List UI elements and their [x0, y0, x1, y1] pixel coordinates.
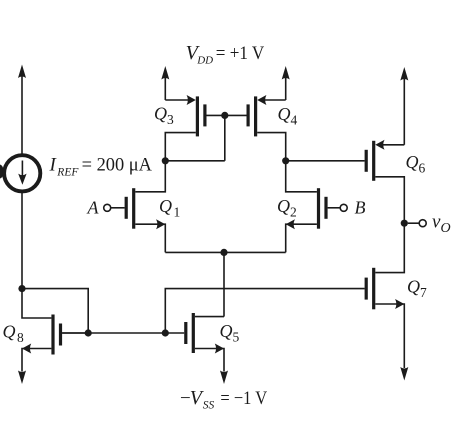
terminal arrow down (Q8 source to -VSS)	[18, 371, 26, 385]
current source IREF	[4, 155, 40, 191]
output terminal vO	[408, 222, 419, 224]
input terminal B	[340, 204, 347, 211]
transistor Q5	[184, 313, 224, 372]
VDD arm Q4	[285, 77, 287, 101]
node J2	[85, 329, 92, 336]
terminal arrow up (Q4 to VDD)	[282, 66, 290, 80]
wire J1 down to Q8 drain	[22, 289, 51, 318]
terminal arrow up left	[18, 65, 26, 79]
node right mirror drain	[282, 157, 289, 164]
gate bus wire Q8-Q5	[62, 332, 184, 334]
transistor Q3	[165, 95, 225, 161]
svg-text:B: B	[355, 198, 366, 218]
terminal arrow down (Q7 source to -VSS)	[400, 367, 408, 381]
tail wire Q1/Q2 sources	[165, 251, 285, 253]
svg-text:Q5: Q5	[220, 321, 240, 345]
svg-text:vO: vO	[432, 212, 451, 237]
svg-text:Q7: Q7	[407, 277, 427, 301]
node J3	[162, 329, 169, 336]
node J1	[18, 285, 25, 292]
node vO	[401, 220, 408, 227]
wire to Q6 gate	[286, 160, 365, 162]
transistor Q6	[365, 140, 405, 223]
bias wire to Q7 gate	[165, 289, 364, 333]
transistor Q8	[22, 315, 88, 372]
svg-text:Q3: Q3	[154, 104, 174, 128]
transistor Q2	[286, 161, 341, 253]
svg-text:= +1 V: = +1 V	[216, 43, 265, 64]
svg-text:= 200 μA: = 200 μA	[82, 155, 153, 176]
terminal arrow up (Q3 to VDD)	[161, 66, 169, 80]
wire IREF down to node J1	[21, 191, 23, 288]
terminal arrow up (Q6 to VDD)	[400, 67, 408, 81]
svg-text:DD: DD	[196, 54, 213, 66]
VDD arm Q3	[164, 77, 166, 101]
transistor Q1	[111, 161, 166, 253]
transistor Q4	[225, 95, 286, 161]
node mirror gates	[221, 112, 228, 119]
VDD arm Q6	[403, 78, 405, 145]
svg-text:Q4: Q4	[278, 104, 298, 128]
svg-text:A: A	[87, 198, 100, 218]
input terminal A	[104, 204, 111, 211]
terminal arrow down (Q5 source to -VSS)	[220, 371, 228, 385]
wire tail node to Q5 drain	[223, 252, 225, 316]
label IREF = 200 uA	[49, 155, 153, 179]
wire J1 to gate bus (drain-gate tie of Q8)	[22, 289, 88, 333]
svg-text:Q8: Q8	[3, 322, 25, 346]
label VDD = +1 V	[186, 42, 265, 66]
node tail	[220, 249, 227, 256]
svg-text:I: I	[49, 155, 58, 176]
node left mirror drain	[162, 157, 169, 164]
transistor Q7	[365, 223, 405, 368]
svg-text:Q1: Q1	[159, 196, 180, 220]
svg-text:REF: REF	[56, 167, 79, 179]
svg-text:SS: SS	[203, 400, 215, 412]
wire gate junction down	[224, 115, 226, 160]
svg-text:Q6: Q6	[406, 152, 426, 176]
edge blob (cropped mark at left edge)	[0, 165, 4, 179]
label -VSS = -1 V	[180, 387, 267, 412]
svg-text:= −1 V: = −1 V	[220, 388, 267, 409]
svg-text:Q2: Q2	[277, 196, 297, 220]
wire diode connection Q3	[165, 160, 225, 162]
wire left branch top (IREF to VDD rail)	[21, 75, 23, 155]
